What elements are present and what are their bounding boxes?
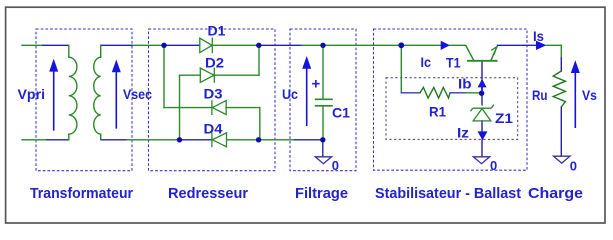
svg-text:Iz: Iz <box>457 125 469 141</box>
svg-text:Vsec: Vsec <box>123 86 152 102</box>
svg-text:+: + <box>312 76 321 93</box>
svg-text:Ic: Ic <box>421 54 432 70</box>
svg-text:Redresseur: Redresseur <box>168 185 248 202</box>
svg-text:Ru: Ru <box>532 87 548 103</box>
svg-text:D3: D3 <box>204 86 223 102</box>
svg-text:0: 0 <box>490 158 497 173</box>
svg-text:T1: T1 <box>446 55 461 71</box>
svg-text:D1: D1 <box>208 23 226 39</box>
svg-text:0: 0 <box>570 159 577 174</box>
svg-text:Stabilisateur - Ballast: Stabilisateur - Ballast <box>375 185 521 202</box>
svg-text:Uc: Uc <box>282 86 298 102</box>
svg-text:C1: C1 <box>332 105 350 121</box>
svg-text:Charge: Charge <box>528 185 583 202</box>
svg-text:Vpri: Vpri <box>18 86 46 102</box>
svg-text:Transformateur: Transformateur <box>30 185 133 202</box>
svg-text:Vs: Vs <box>582 87 597 103</box>
svg-text:Filtrage: Filtrage <box>295 185 348 202</box>
svg-text:Is: Is <box>533 28 544 44</box>
svg-text:D2: D2 <box>205 55 224 71</box>
svg-text:0: 0 <box>332 158 339 173</box>
svg-text:Z1: Z1 <box>495 110 513 126</box>
svg-text:R1: R1 <box>429 104 446 120</box>
svg-text:Ib: Ib <box>458 76 472 92</box>
svg-text:D4: D4 <box>204 121 223 137</box>
